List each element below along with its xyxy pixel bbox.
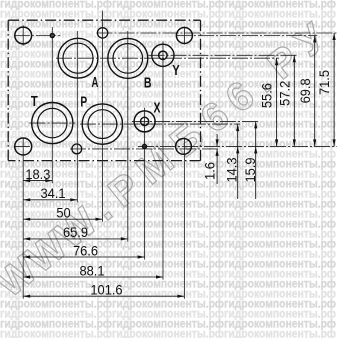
- dimension texts: [25, 70, 332, 298]
- plate outline (mounting plate edge, chain line): [8, 20, 200, 160]
- port letter labels: [31, 62, 180, 116]
- horizontal centerline through port Y y=55.3 (57.2 extension): [149, 54, 297, 56]
- horizontal centerline through top circle y=33 (71.5 extension): [97, 32, 337, 34]
- horizontal centerline of port X y=121.4 (15.9 extension): [132, 120, 258, 122]
- svg-text:1.6: 1.6: [202, 162, 218, 180]
- dimension 50 line: [23, 218, 102, 220]
- svg-text:50: 50: [56, 205, 70, 221]
- port X: [134, 111, 155, 132]
- vertical centerline port A / pin G x=77.3: [76, 31, 78, 202]
- horizontal centerline bolt F4 bottom-left: [14, 145, 33, 147]
- svg-text:Y: Y: [172, 62, 180, 79]
- vertical centerline bolts F1/F4 x=23.2: [22, 25, 24, 45]
- port B: [108, 38, 148, 78]
- port T: [32, 103, 73, 144]
- vertical centerline port B x=127.8: [127, 31, 129, 242]
- vertical centerline bolts F2/F3 x=184.4: [183, 27, 185, 45]
- svg-text:55.6: 55.6: [259, 83, 275, 108]
- dimension 71.5 line: [333, 33, 335, 146]
- svg-text:A: A: [92, 74, 99, 91]
- dimension 57.2 line: [293, 55, 295, 146]
- top small circle (50,71.5): [97, 28, 107, 38]
- svg-text:71.5: 71.5: [317, 70, 333, 95]
- vertical centerline port T / dot x=52.3: [51, 27, 53, 183]
- dimension 34.1 line: [23, 199, 77, 201]
- svg-text:15.9: 15.9: [243, 157, 259, 182]
- svg-text:88.1: 88.1: [79, 263, 104, 279]
- bolt hole F2 bottom-right: [176, 139, 192, 155]
- svg-text:X: X: [154, 100, 161, 116]
- horizontal centerline pin hole G y=148.9 (1.6 extension): [70, 148, 220, 150]
- svg-text:14.3: 14.3: [224, 157, 240, 182]
- svg-text:76.6: 76.6: [73, 243, 98, 259]
- horizontal centerline through F1/dot/F2 bolts y=35.5: [14, 35, 60, 37]
- dot pin (76.6,0): [143, 145, 147, 149]
- bolt hole F4 top-left: [15, 27, 32, 44]
- svg-text:P: P: [80, 94, 87, 110]
- dimension 15.9 line (leader extended down): [255, 121, 257, 199]
- horizontal centerline of port P y=124.1 (14.3 extension): [80, 123, 240, 125]
- bolt hole F1 bottom-left: [15, 138, 32, 155]
- dimension block bottom-left: [23, 33, 336, 298]
- dimension 14.3 line (leader extended down): [237, 124, 239, 199]
- svg-text:34.1: 34.1: [40, 186, 65, 202]
- bolt hole F3 top-right: [176, 28, 192, 44]
- dimension 101.6 line: [23, 295, 184, 297]
- svg-text:B: B: [144, 75, 152, 91]
- horizontal centerline through ports A and B y=58.2 (55.6 extension): [56, 57, 279, 59]
- dimension 76.6 line: [23, 256, 144, 258]
- pin hole G bottom middle: [72, 144, 82, 154]
- vertical centerline port X x=144.6: [144, 108, 146, 260]
- dimension 88.1 line: [23, 276, 163, 278]
- svg-text:101.6: 101.6: [90, 282, 122, 298]
- orifice dot top (18.3,69.8): [50, 34, 54, 38]
- svg-text:69.8: 69.8: [298, 78, 314, 103]
- svg-text:65.9: 65.9: [63, 225, 88, 241]
- dimension 55.6 line: [276, 58, 278, 146]
- vertical centerline port P / top circle x=102.5: [102, 11, 104, 222]
- port P: [82, 104, 122, 144]
- vertical centerline port Y x=163: [162, 42, 164, 280]
- horizontal centerline dot/F3 bottom y=146.4 (datum extension): [138, 145, 337, 147]
- svg-text:T: T: [31, 93, 38, 110]
- port A: [58, 38, 98, 78]
- dimension 69.8 line: [314, 36, 316, 147]
- svg-text:18.3: 18.3: [25, 166, 50, 182]
- svg-text:57.2: 57.2: [277, 81, 293, 106]
- dimension 65.9 line: [23, 238, 128, 240]
- horizontal centerline of port T: [30, 122, 76, 124]
- port Y: [152, 44, 174, 66]
- dimension 18.3 line: [23, 180, 52, 182]
- dimension 1.6 line (outside arrows, leader extended down): [216, 134, 218, 146]
